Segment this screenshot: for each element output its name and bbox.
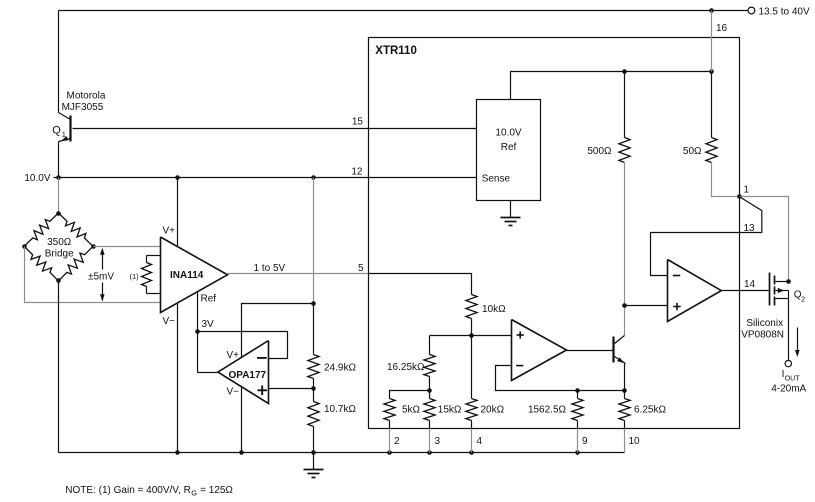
svg-text:±5mV: ±5mV — [88, 272, 114, 283]
terminal Iout (open circle) — [785, 360, 791, 366]
svg-text:V−: V− — [227, 387, 240, 398]
transistor Q2 (P-MOSFET) — [769, 273, 771, 306]
wire 3V to OPA177 - input (feedback) — [198, 332, 288, 359]
svg-text:OUT: OUT — [785, 376, 801, 383]
svg-text:Motorola: Motorola — [67, 91, 106, 102]
svg-text:V−: V− — [163, 316, 176, 327]
junction rail 500ohm — [622, 69, 627, 74]
svg-text:5: 5 — [358, 263, 364, 274]
svg-text:16.25kΩ: 16.25kΩ — [387, 362, 425, 373]
resistor 5k — [384, 399, 395, 421]
junction Q2 drain — [786, 279, 791, 284]
svg-text:15: 15 — [352, 117, 364, 128]
resistor RG (1) — [147, 255, 161, 257]
wire 5k jog — [390, 391, 430, 399]
svg-text:10.0V: 10.0V — [24, 173, 50, 184]
wire Q2 source to Iout — [788, 299, 790, 361]
wire op2 + input row — [430, 335, 512, 337]
junction bus ground — [311, 450, 316, 455]
junction pin 1 — [737, 194, 742, 199]
svg-text:OPA177: OPA177 — [229, 370, 267, 381]
svg-text:10.7kΩ: 10.7kΩ — [324, 404, 356, 415]
junction bus pin 3 — [427, 450, 432, 455]
svg-text:XTR110: XTR110 — [375, 45, 417, 57]
annotation +/-5mV arrow — [102, 250, 104, 270]
wire 10.7k to ground bus — [313, 427, 315, 453]
wire INA114 V- to ground bus — [177, 304, 179, 453]
resistor 1562.5 — [572, 399, 583, 421]
wire INA114 output 1-to-5V — [228, 273, 369, 275]
node bridge bottom — [56, 278, 61, 283]
wire Q1 base to pin 15 — [73, 128, 477, 130]
resistor RG body — [142, 263, 152, 287]
junction bus pin 4 — [469, 450, 474, 455]
wire 16.25k top — [429, 336, 431, 355]
svg-text:Ref: Ref — [501, 142, 517, 153]
wire op3 output pin 14 — [722, 290, 769, 292]
wire Q3 emitter down — [624, 364, 626, 391]
terminal +VCC (open circle) — [748, 7, 755, 14]
node bridge right — [91, 244, 96, 249]
svg-text:4: 4 — [477, 436, 483, 447]
svg-text:12: 12 — [351, 167, 363, 178]
label + input (OPA177) — [258, 389, 268, 391]
resistor 16.25k — [424, 355, 435, 377]
junction divider mid / OPA177 + — [311, 386, 316, 391]
wire pin 13 to op3 - input — [651, 233, 762, 276]
annotation Iout arrow — [797, 328, 799, 352]
svg-text:Bridge: Bridge — [45, 249, 74, 260]
resistor 10k — [466, 295, 477, 319]
wire top supply rail — [59, 10, 748, 12]
svg-text:15kΩ: 15kΩ — [438, 405, 462, 416]
wire divider top lead — [313, 304, 315, 355]
node bridge left — [22, 244, 27, 249]
svg-text:1 to 5V: 1 to 5V — [254, 263, 286, 274]
svg-text:1: 1 — [62, 130, 66, 139]
svg-text:Sense: Sense — [482, 174, 511, 185]
wire 1562.5 top — [577, 391, 579, 399]
junction bus pin 9 — [575, 450, 580, 455]
wire Q1 collector to top rail — [58, 11, 60, 113]
resistor bridge bottom-right — [58, 246, 93, 281]
svg-text:INA114: INA114 — [170, 270, 204, 281]
svg-text:6.25kΩ: 6.25kΩ — [634, 405, 666, 416]
resistor bridge top-right — [58, 213, 93, 246]
svg-text:2: 2 — [801, 294, 805, 303]
wire pin 9 — [577, 421, 579, 429]
wire 500ohm to collector — [624, 163, 626, 336]
wire 50ohm top lead — [711, 72, 713, 138]
junction bus INA114 V- — [175, 450, 180, 455]
junction 10k / op2 + / 16.25k — [469, 333, 474, 338]
wire pin 16 — [711, 11, 713, 72]
junction rail 50ohm / pin 16 — [709, 69, 714, 74]
svg-text:16: 16 — [716, 23, 728, 34]
wire bridge bottom to ground bus — [58, 281, 60, 453]
resistor 20k — [466, 399, 477, 421]
svg-text:(1): (1) — [130, 272, 140, 281]
junction 10.0V-divider — [311, 175, 316, 180]
svg-text:20kΩ: 20kΩ — [481, 405, 505, 416]
box 10.0V Ref — [477, 100, 541, 201]
svg-text:50Ω: 50Ω — [683, 146, 702, 157]
label + input (U2) — [517, 334, 524, 336]
wire 10.0V / pin 12 — [54, 177, 477, 179]
junction op3 + input — [622, 303, 627, 308]
svg-text:24.9kΩ: 24.9kΩ — [324, 362, 356, 373]
wire pin 5 to 10k — [369, 274, 472, 295]
label - input (U3) — [673, 275, 680, 277]
wire 15k top — [429, 391, 431, 399]
junction divider top / OPA177 V+ — [311, 301, 316, 306]
svg-text:1: 1 — [744, 185, 750, 196]
svg-text:10kΩ: 10kΩ — [482, 304, 506, 315]
svg-text:13.5 to 40V: 13.5 to 40V — [759, 7, 810, 18]
wire 6.25k top — [624, 391, 626, 399]
wire 500ohm top lead — [624, 72, 626, 138]
transistor Q1 — [59, 113, 71, 120]
wire OPA177 + input — [269, 388, 314, 390]
svg-text:350Ω: 350Ω — [47, 237, 72, 248]
wire pin 4 — [471, 421, 473, 429]
op-amp INA114 — [161, 237, 228, 313]
wire pin 1 to pin 13 jog — [740, 197, 762, 233]
svg-text:NOTE: (1) Gain = 400V/V, R: NOTE: (1) Gain = 400V/V, R — [65, 485, 191, 496]
wire bridge right to INA+ (upper) — [94, 246, 161, 248]
svg-text:V+: V+ — [163, 226, 176, 237]
transistor Q3 — [612, 337, 614, 363]
wire ground bus — [59, 452, 625, 454]
svg-text:10.0V: 10.0V — [495, 128, 521, 139]
wire pin 10 — [624, 421, 626, 429]
wire pin 2 — [389, 421, 391, 429]
wire OPA177 V+ supply — [242, 304, 314, 358]
junction 10.0V-INA114 V+ — [175, 175, 180, 180]
wire 16.25k bottom — [429, 377, 431, 391]
op-amp U3 — [668, 260, 722, 322]
wire divider mid — [313, 379, 315, 402]
resistor 10.7k — [308, 402, 319, 427]
wire Q1 emitter down — [58, 142, 60, 178]
svg-text:9: 9 — [582, 436, 588, 447]
junction 1562.5 top — [575, 388, 580, 393]
op-amp U2 — [512, 320, 567, 381]
resistor bridge bottom-left — [24, 246, 58, 281]
svg-text:3: 3 — [435, 436, 441, 447]
wire op3 + input — [625, 305, 668, 307]
svg-text:2: 2 — [394, 436, 400, 447]
wire 10.0V to divider — [313, 178, 315, 304]
node 3V — [195, 329, 200, 334]
wire op2 - input — [496, 366, 625, 391]
svg-text:= 125Ω: = 125Ω — [197, 485, 233, 496]
svg-text:3V: 3V — [202, 319, 215, 330]
svg-text:MJF3055: MJF3055 — [62, 102, 104, 113]
resistor 24.9k — [308, 355, 319, 379]
svg-text:Siliconix: Siliconix — [746, 318, 783, 329]
junction 6.25k top / Q3 emitter — [622, 388, 627, 393]
svg-text:10: 10 — [629, 436, 641, 447]
op-amp OPA177 — [218, 341, 269, 404]
wire op2 output to Q3 base — [567, 350, 613, 352]
wire OPA177 V- to ground bus — [241, 388, 243, 453]
junction 10.0V-Q1 emitter-bridge — [56, 175, 61, 180]
label - input (U2) — [516, 365, 523, 367]
node bridge top — [56, 211, 61, 216]
ground symbol (main) — [313, 453, 315, 470]
resistor bridge top-left — [24, 213, 58, 246]
svg-text:14: 14 — [744, 279, 756, 290]
junction bus pin 2 — [387, 450, 392, 455]
wire OPA177 output to 3V — [198, 372, 218, 374]
wire pin 3 — [429, 421, 431, 429]
wire 20k top — [471, 336, 473, 399]
resistor 6.25k — [619, 399, 630, 421]
svg-text:VP0808N: VP0808N — [741, 330, 784, 341]
ground symbol (Ref box) — [510, 201, 512, 218]
box XTR110 — [369, 38, 740, 429]
svg-text:Ref: Ref — [201, 294, 217, 305]
wire 10k bottom to + node — [471, 319, 473, 336]
junction pin-16 / supply rail — [709, 8, 714, 13]
svg-text:500Ω: 500Ω — [587, 146, 612, 157]
wire bridge top feed — [58, 178, 60, 214]
svg-text:V+: V+ — [227, 350, 240, 361]
wire Ref box to internal rail — [511, 72, 712, 100]
wire INA114 V+ supply — [177, 178, 179, 247]
junction 16.25k / 5k / 15k — [427, 388, 432, 393]
resistor 15k — [424, 399, 435, 421]
wire INA114 Ref down — [197, 292, 199, 332]
junction bus OPA177 V- — [239, 450, 244, 455]
svg-text:1562.5Ω: 1562.5Ω — [528, 405, 567, 416]
svg-text:4-20mA: 4-20mA — [771, 384, 806, 395]
label + input (U3) — [673, 306, 680, 308]
wire pin 1 to Q2 drain — [740, 197, 789, 282]
svg-text:Q: Q — [52, 125, 61, 137]
svg-text:5kΩ: 5kΩ — [402, 405, 421, 416]
label - input (OPA177) — [257, 357, 267, 359]
resistor 50ohm — [706, 138, 717, 163]
wire bridge left to INA- (lower) — [25, 247, 161, 303]
wire 50ohm to pin 1 — [712, 163, 740, 197]
resistor 500ohm — [619, 138, 630, 163]
